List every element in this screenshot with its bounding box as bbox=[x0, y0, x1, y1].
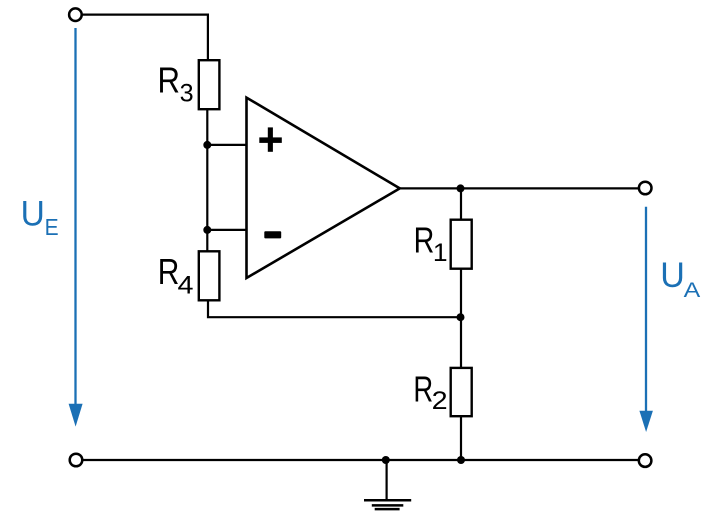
op-amp U1 triangle bbox=[247, 98, 400, 278]
voltage arrow U_E shaft bbox=[74, 28, 76, 406]
node dot inverting input bbox=[203, 226, 211, 234]
svg-text:R: R bbox=[158, 60, 181, 101]
wire output node down through R1 to feedback node and R2 to bottom rail bbox=[460, 188, 462, 460]
svg-text:R: R bbox=[413, 369, 433, 410]
ground stem wire bbox=[386, 460, 388, 500]
terminal bottom-right bbox=[639, 454, 652, 467]
svg-text:4: 4 bbox=[178, 272, 194, 299]
svg-text:A: A bbox=[684, 278, 701, 302]
terminal input top-left bbox=[69, 8, 82, 21]
wire top rail from input terminal to R3 bbox=[82, 15, 208, 61]
node dot ground tap bbox=[382, 456, 390, 464]
voltage arrow U_E head bbox=[69, 404, 83, 427]
node dot feedback junction R1/R2 bbox=[457, 313, 465, 321]
wire R3 bottom to R4 top bbox=[206, 109, 208, 252]
terminal output top-right bbox=[639, 182, 652, 195]
resistor R1 body bbox=[451, 220, 472, 269]
wire inverting input bbox=[207, 229, 246, 231]
svg-text:2: 2 bbox=[432, 388, 448, 415]
svg-text:E: E bbox=[45, 214, 59, 240]
resistor R2 body bbox=[451, 368, 472, 416]
svg-text:R: R bbox=[414, 220, 435, 261]
resistor R3 body bbox=[199, 60, 220, 109]
svg-text:U: U bbox=[660, 256, 685, 295]
node dot R2 to bottom rail bbox=[457, 456, 465, 464]
wire R4 bottom to feedback node bbox=[208, 300, 461, 317]
resistor R4 body bbox=[199, 251, 220, 300]
wire non-inverting input bbox=[207, 144, 246, 146]
svg-text:U: U bbox=[21, 194, 45, 233]
svg-text:R: R bbox=[158, 251, 180, 292]
ground symbol bbox=[364, 500, 411, 509]
voltage arrow U_A head bbox=[639, 411, 653, 432]
svg-text:3: 3 bbox=[180, 81, 194, 108]
node dot non-inverting input bbox=[203, 141, 211, 149]
wire bottom rail bbox=[83, 459, 638, 461]
op-amp minus marker bbox=[264, 231, 281, 238]
wire op-amp output to output terminal bbox=[399, 187, 638, 189]
node dot output bbox=[457, 184, 465, 192]
svg-text:1: 1 bbox=[433, 240, 448, 267]
voltage arrow U_A shaft bbox=[645, 207, 647, 413]
op-amp plus marker bbox=[259, 127, 282, 151]
terminal bottom-left bbox=[70, 454, 83, 467]
